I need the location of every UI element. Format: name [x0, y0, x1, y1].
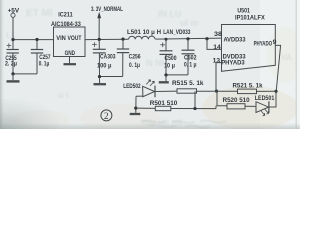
- svg-text:14: 14: [213, 44, 221, 51]
- resistor R501: [136, 106, 216, 110]
- svg-text:100 μ: 100 μ: [97, 62, 112, 69]
- svg-text:C500: C500: [165, 55, 177, 62]
- page edge right: [295, 0, 297, 129]
- resistor R515: [177, 89, 238, 93]
- LED LED502: [136, 80, 177, 97]
- node C502: [186, 37, 189, 40]
- wire pin9 PHYAD0: [275, 45, 280, 91]
- capacitor CA303: [92, 39, 106, 76]
- node LED502-R501-gnd: [134, 107, 137, 110]
- svg-text:38: 38: [214, 31, 223, 38]
- svg-text:0. 1μ: 0. 1μ: [129, 62, 140, 69]
- svg-text:C256: C256: [129, 53, 141, 60]
- svg-text:R501 510: R501 510: [150, 100, 178, 107]
- node PHYAD0: [274, 90, 277, 93]
- svg-text:CA303: CA303: [100, 54, 116, 61]
- scan edge bottom: [0, 123, 300, 129]
- wire C255-C257 join: [13, 73, 37, 75]
- svg-text:PHYADO: PHYADO: [254, 40, 273, 47]
- svg-text:IP101ALFX: IP101ALFX: [235, 14, 266, 21]
- wire pin13 strap: [216, 63, 222, 92]
- wire strap vertical: [194, 91, 196, 108]
- ground LED502: [130, 113, 141, 115]
- LED LED501: [256, 101, 269, 116]
- node rail1-C257: [35, 38, 38, 41]
- warm scan tint patches: [10, 27, 303, 132]
- resistor R520: [227, 104, 256, 109]
- capacitor C257: [31, 40, 43, 74]
- paper background: [0, 0, 300, 129]
- ghost bleed-through marks: [6, 8, 292, 127]
- regulator IC211 box: [54, 27, 86, 57]
- svg-text:IC211: IC211: [58, 11, 73, 18]
- scan edge left: [0, 0, 4, 129]
- ground IC211: [64, 57, 77, 65]
- wire R501 to R520 jog: [215, 106, 217, 109]
- ground C500: [159, 75, 169, 82]
- svg-text:0. 1μ: 0. 1μ: [39, 60, 50, 67]
- svg-text:LED502: LED502: [123, 83, 141, 90]
- ground 1: [7, 74, 20, 82]
- ground CA303: [94, 77, 107, 85]
- wire pin14 jog: [207, 39, 222, 50]
- power +5V: [11, 13, 15, 39]
- IC U501 IP101ALFX box: [222, 25, 276, 72]
- svg-text:IN LU: IN LU: [158, 9, 182, 19]
- node C256: [121, 38, 124, 41]
- svg-text:VA: VA: [281, 53, 292, 62]
- svg-text:PHYAD3: PHYAD3: [221, 60, 245, 67]
- svg-text:R520 510: R520 510: [223, 97, 251, 104]
- wire rail2 VOUT to U501: [85, 38, 222, 40]
- svg-text:AIC1084-33: AIC1084-33: [51, 21, 81, 28]
- svg-text:C502: C502: [184, 55, 197, 62]
- main circuit ink: [7, 12, 281, 116]
- node DVDD33 feed: [205, 37, 208, 40]
- svg-text:10 μ: 10 μ: [164, 62, 175, 69]
- svg-text:2. 2μ: 2. 2μ: [5, 60, 17, 67]
- capacitor C255: [7, 40, 19, 74]
- node C500: [165, 38, 168, 41]
- wire PHYAD0 to LED501: [269, 91, 276, 107]
- wire LED502 left drop: [135, 96, 137, 113]
- svg-text:ul m: ul m: [180, 18, 199, 28]
- svg-text:2: 2: [104, 112, 109, 122]
- capacitor C500: [160, 39, 173, 75]
- node C500 bottom: [164, 73, 167, 76]
- node R501-strap: [193, 107, 196, 110]
- svg-text:LED501: LED501: [255, 95, 275, 102]
- wire C500-C502 join: [166, 74, 188, 76]
- svg-text:L501 10 μ H: L501 10 μ H: [127, 29, 161, 36]
- node C255 bottom: [11, 72, 14, 75]
- svg-text:13: 13: [213, 57, 221, 64]
- svg-text:LL: LL: [6, 30, 17, 40]
- node CA303 bottom: [98, 75, 101, 78]
- svg-text:LAN_VD033: LAN_VD033: [163, 29, 191, 36]
- svg-text:R515 5. 1k: R515 5. 1k: [172, 80, 204, 87]
- capacitor C256: [117, 39, 129, 76]
- svg-text:N NI: N NI: [146, 58, 164, 68]
- node rail1-C255: [11, 38, 14, 41]
- svg-text:AVDD33: AVDD33: [224, 36, 247, 43]
- svg-text:0. 1 μ: 0. 1 μ: [184, 62, 197, 69]
- svg-text:VOUT: VOUT: [68, 35, 82, 42]
- wire CA303-C256 join: [100, 76, 123, 78]
- capacitor C502: [182, 39, 195, 75]
- svg-text:ET MI: ET MI: [26, 8, 53, 19]
- svg-text:u i: u i: [58, 90, 69, 100]
- inductor L501: [129, 36, 155, 39]
- node CA303: [98, 38, 101, 41]
- wire pin13 down to R520 node: [217, 91, 227, 106]
- net 3.3V_NORMAL arrow: [97, 12, 101, 40]
- resistor R521: [238, 89, 277, 94]
- svg-text:+5V: +5V: [8, 7, 20, 14]
- svg-text:3. 3V_NORMAL: 3. 3V_NORMAL: [91, 6, 123, 13]
- node pin13-lineA: [215, 90, 218, 93]
- wire rail1: [13, 39, 54, 41]
- figure number 2 circled: [101, 110, 112, 122]
- svg-text:VIN: VIN: [56, 35, 66, 42]
- svg-text:GND: GND: [65, 50, 76, 57]
- svg-text:R521 5. 1k: R521 5. 1k: [233, 83, 264, 90]
